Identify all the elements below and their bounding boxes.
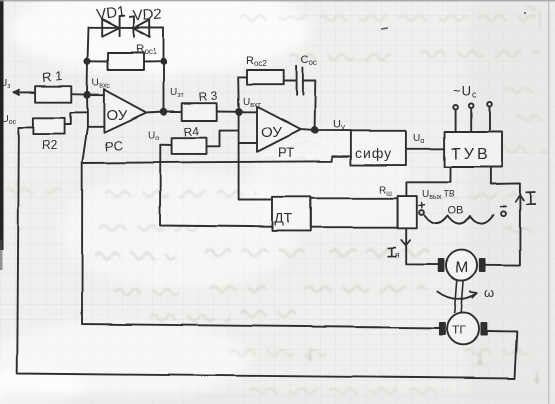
svg-text:R 3: R 3 bbox=[198, 88, 218, 104]
svg-text:ТУВ: ТУВ bbox=[451, 146, 491, 163]
svg-text:R 1: R 1 bbox=[42, 68, 64, 85]
svg-text:я: я bbox=[395, 250, 400, 260]
svg-text:сифу: сифу bbox=[355, 145, 392, 161]
svg-text:VD1: VD1 bbox=[95, 4, 126, 24]
svg-text:VD2: VD2 bbox=[132, 6, 162, 25]
svg-text:ω: ω bbox=[484, 285, 494, 300]
svg-text:ОУ: ОУ bbox=[106, 107, 127, 124]
svg-text:РС: РС bbox=[104, 137, 123, 154]
svg-text:R2: R2 bbox=[42, 138, 58, 152]
svg-text:РТ: РТ bbox=[278, 145, 294, 160]
svg-text:ОВ: ОВ bbox=[448, 205, 464, 217]
svg-text:М: М bbox=[455, 260, 468, 277]
svg-text:ОУ: ОУ bbox=[261, 124, 282, 141]
svg-text:ДТ: ДТ bbox=[274, 210, 292, 226]
svg-text:R4: R4 bbox=[183, 124, 200, 139]
svg-text:ТГ: ТГ bbox=[452, 323, 466, 337]
